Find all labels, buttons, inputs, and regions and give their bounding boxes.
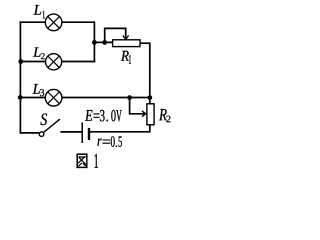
label r (98, 139, 102, 147)
battery long plate (81, 122, 83, 143)
label L2 sub (41, 53, 45, 59)
arrowhead of R2 wiper pointing right (142, 111, 146, 117)
wire: bottom-left to switch pivot (20, 132, 39, 134)
resistor R1 rheostat body (113, 40, 140, 47)
label r digit 5 (119, 136, 122, 147)
label L1 letter (34, 5, 42, 15)
label E (85, 110, 93, 121)
lamp L2 (46, 54, 62, 70)
label E digit 3 (100, 110, 105, 122)
switch lever tip blob (58, 119, 60, 121)
label R1 sub (129, 55, 131, 64)
node: R2 wiper tap junction (127, 95, 132, 100)
label S (41, 114, 48, 126)
wire: R2 wiper tap (130, 98, 146, 114)
resistor R2 rheostat body (147, 104, 154, 125)
label E unit V (116, 110, 122, 121)
wire: right vertical down to R2 (149, 42, 151, 104)
label L3 sub (40, 89, 44, 96)
node: left bus / L2 junction (18, 59, 23, 64)
wire: middle row from node to R1 (94, 41, 112, 43)
label r equals (103, 140, 111, 144)
lamp L1 (45, 14, 62, 31)
wire: R1 wiper tap (105, 28, 126, 42)
label r dot (116, 145, 117, 147)
label R2 letter (159, 109, 167, 120)
node: right vertical / L3 junction (147, 95, 152, 100)
caption hanzi TU (figure) (77, 154, 87, 167)
lamp L3 (45, 89, 62, 106)
arrowhead of R1 wiper pointing down (123, 35, 129, 39)
wire: L2 branch horizontal (20, 61, 95, 63)
wire: R2 bottom to battery (89, 125, 149, 132)
wire: L3 branch horizontal (20, 97, 149, 99)
switch S lever (44, 120, 60, 133)
switch pivot circle (39, 132, 44, 137)
label L3 letter (33, 84, 41, 94)
label L1 sub (43, 11, 45, 18)
label E dot (107, 120, 108, 122)
label r digit 0 (111, 136, 115, 147)
wire: right vertical from L1 row down to L2 row (93, 21, 95, 62)
label E digit 0 (111, 110, 115, 122)
label E equals (94, 114, 100, 118)
label R2 sub (166, 116, 170, 123)
label L2 letter (33, 48, 41, 57)
node: L1/L2 merge junction (92, 40, 97, 45)
wire: left vertical bus (19, 21, 21, 133)
battery short plate (88, 128, 90, 140)
wire: battery left to switch contact (60, 131, 82, 133)
caption digit 1 (95, 154, 98, 168)
wire: R1 right terminal (140, 42, 150, 44)
label R1 letter (121, 51, 129, 61)
node: left bus / L3 junction (18, 95, 23, 100)
wire: L1 top branch horizontal (20, 21, 95, 23)
node: R1 wiper tap junction (102, 40, 107, 45)
